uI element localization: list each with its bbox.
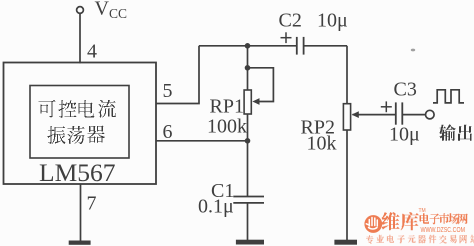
- pin 7 wire: [80, 184, 82, 241]
- ink speck artifact: [411, 49, 415, 52]
- C3 plus sign: [381, 106, 392, 108]
- svg-text:WWW.DZSC.COM: WWW.DZSC.COM: [421, 227, 466, 234]
- RP1 bottom lead: [247, 114, 249, 141]
- RP1 wiper arrowhead: [252, 98, 259, 105]
- svg-text:10k: 10k: [307, 133, 337, 155]
- svg-text:5: 5: [163, 80, 173, 102]
- watermark hand glyph: [366, 218, 377, 230]
- svg-text:RP1: RP1: [210, 96, 244, 118]
- text controllable-current (kekong dianliu): [39, 100, 56, 118]
- text oscillator (zhendangqi): [48, 126, 66, 144]
- RP1 wiper loop wire: [248, 68, 274, 102]
- capacitor C2 plates: [296, 37, 298, 55]
- watermark slogan line: [366, 235, 374, 244]
- capacitor C3 plates: [395, 102, 397, 124]
- svg-text:10μ: 10μ: [317, 10, 348, 32]
- C2 plus sign: [281, 37, 292, 39]
- junction dot node B (pin6/RP1/C1): [245, 138, 251, 144]
- svg-text:4: 4: [87, 41, 97, 63]
- capacitor C1 plates: [233, 196, 264, 198]
- ground bar below pin 7: [69, 241, 91, 245]
- svg-text:7: 7: [87, 193, 97, 215]
- RP2 arrow wire from C3: [353, 114, 396, 116]
- IC U1 LM567 outer box: [4, 63, 157, 185]
- junction dot node A (rail/RP1): [245, 43, 251, 49]
- top rail left of C2: [199, 45, 297, 47]
- RP1 top lead: [247, 46, 249, 90]
- top rail right of C2: [304, 45, 347, 47]
- square wave icon: [433, 90, 464, 103]
- output terminal circle: [426, 110, 435, 119]
- power terminal Vcc: [77, 7, 84, 14]
- svg-text:0.1μ: 0.1μ: [198, 196, 234, 218]
- RP2 arrowhead: [352, 111, 359, 118]
- svg-text:TM: TM: [419, 208, 426, 214]
- wire C3 to output terminal: [402, 114, 425, 116]
- svg-text:6: 6: [163, 121, 173, 143]
- svg-text:VCC: VCC: [95, 0, 127, 21]
- potentiometer RP2 body: [343, 104, 350, 130]
- svg-text:100k: 100k: [207, 116, 247, 138]
- C1 ground lead: [247, 203, 249, 240]
- watermark weiku big text: [382, 212, 400, 230]
- potentiometer RP1 body: [244, 90, 251, 114]
- RP2 bottom lead: [346, 130, 348, 240]
- C1 top lead: [247, 141, 249, 197]
- ground bar below RP2: [334, 240, 357, 245]
- svg-text:10μ: 10μ: [389, 124, 420, 146]
- svg-text:C3: C3: [394, 79, 417, 101]
- pin 5 wire: [156, 46, 199, 104]
- watermark dianzishichangwang: [420, 213, 430, 224]
- svg-text:LM567: LM567: [39, 158, 116, 187]
- pin 6 wire: [156, 140, 248, 142]
- watermark logo circle: [364, 215, 382, 233]
- svg-text:C2: C2: [279, 10, 302, 32]
- RP1 wiper junction dot: [245, 65, 251, 71]
- IC inner box: [30, 86, 129, 159]
- wire rail corner down to RP2: [346, 46, 348, 104]
- label output (shuchu): [440, 124, 456, 141]
- ground bar below C1: [236, 240, 264, 245]
- wire Vcc to pin 4: [79, 13, 81, 63]
